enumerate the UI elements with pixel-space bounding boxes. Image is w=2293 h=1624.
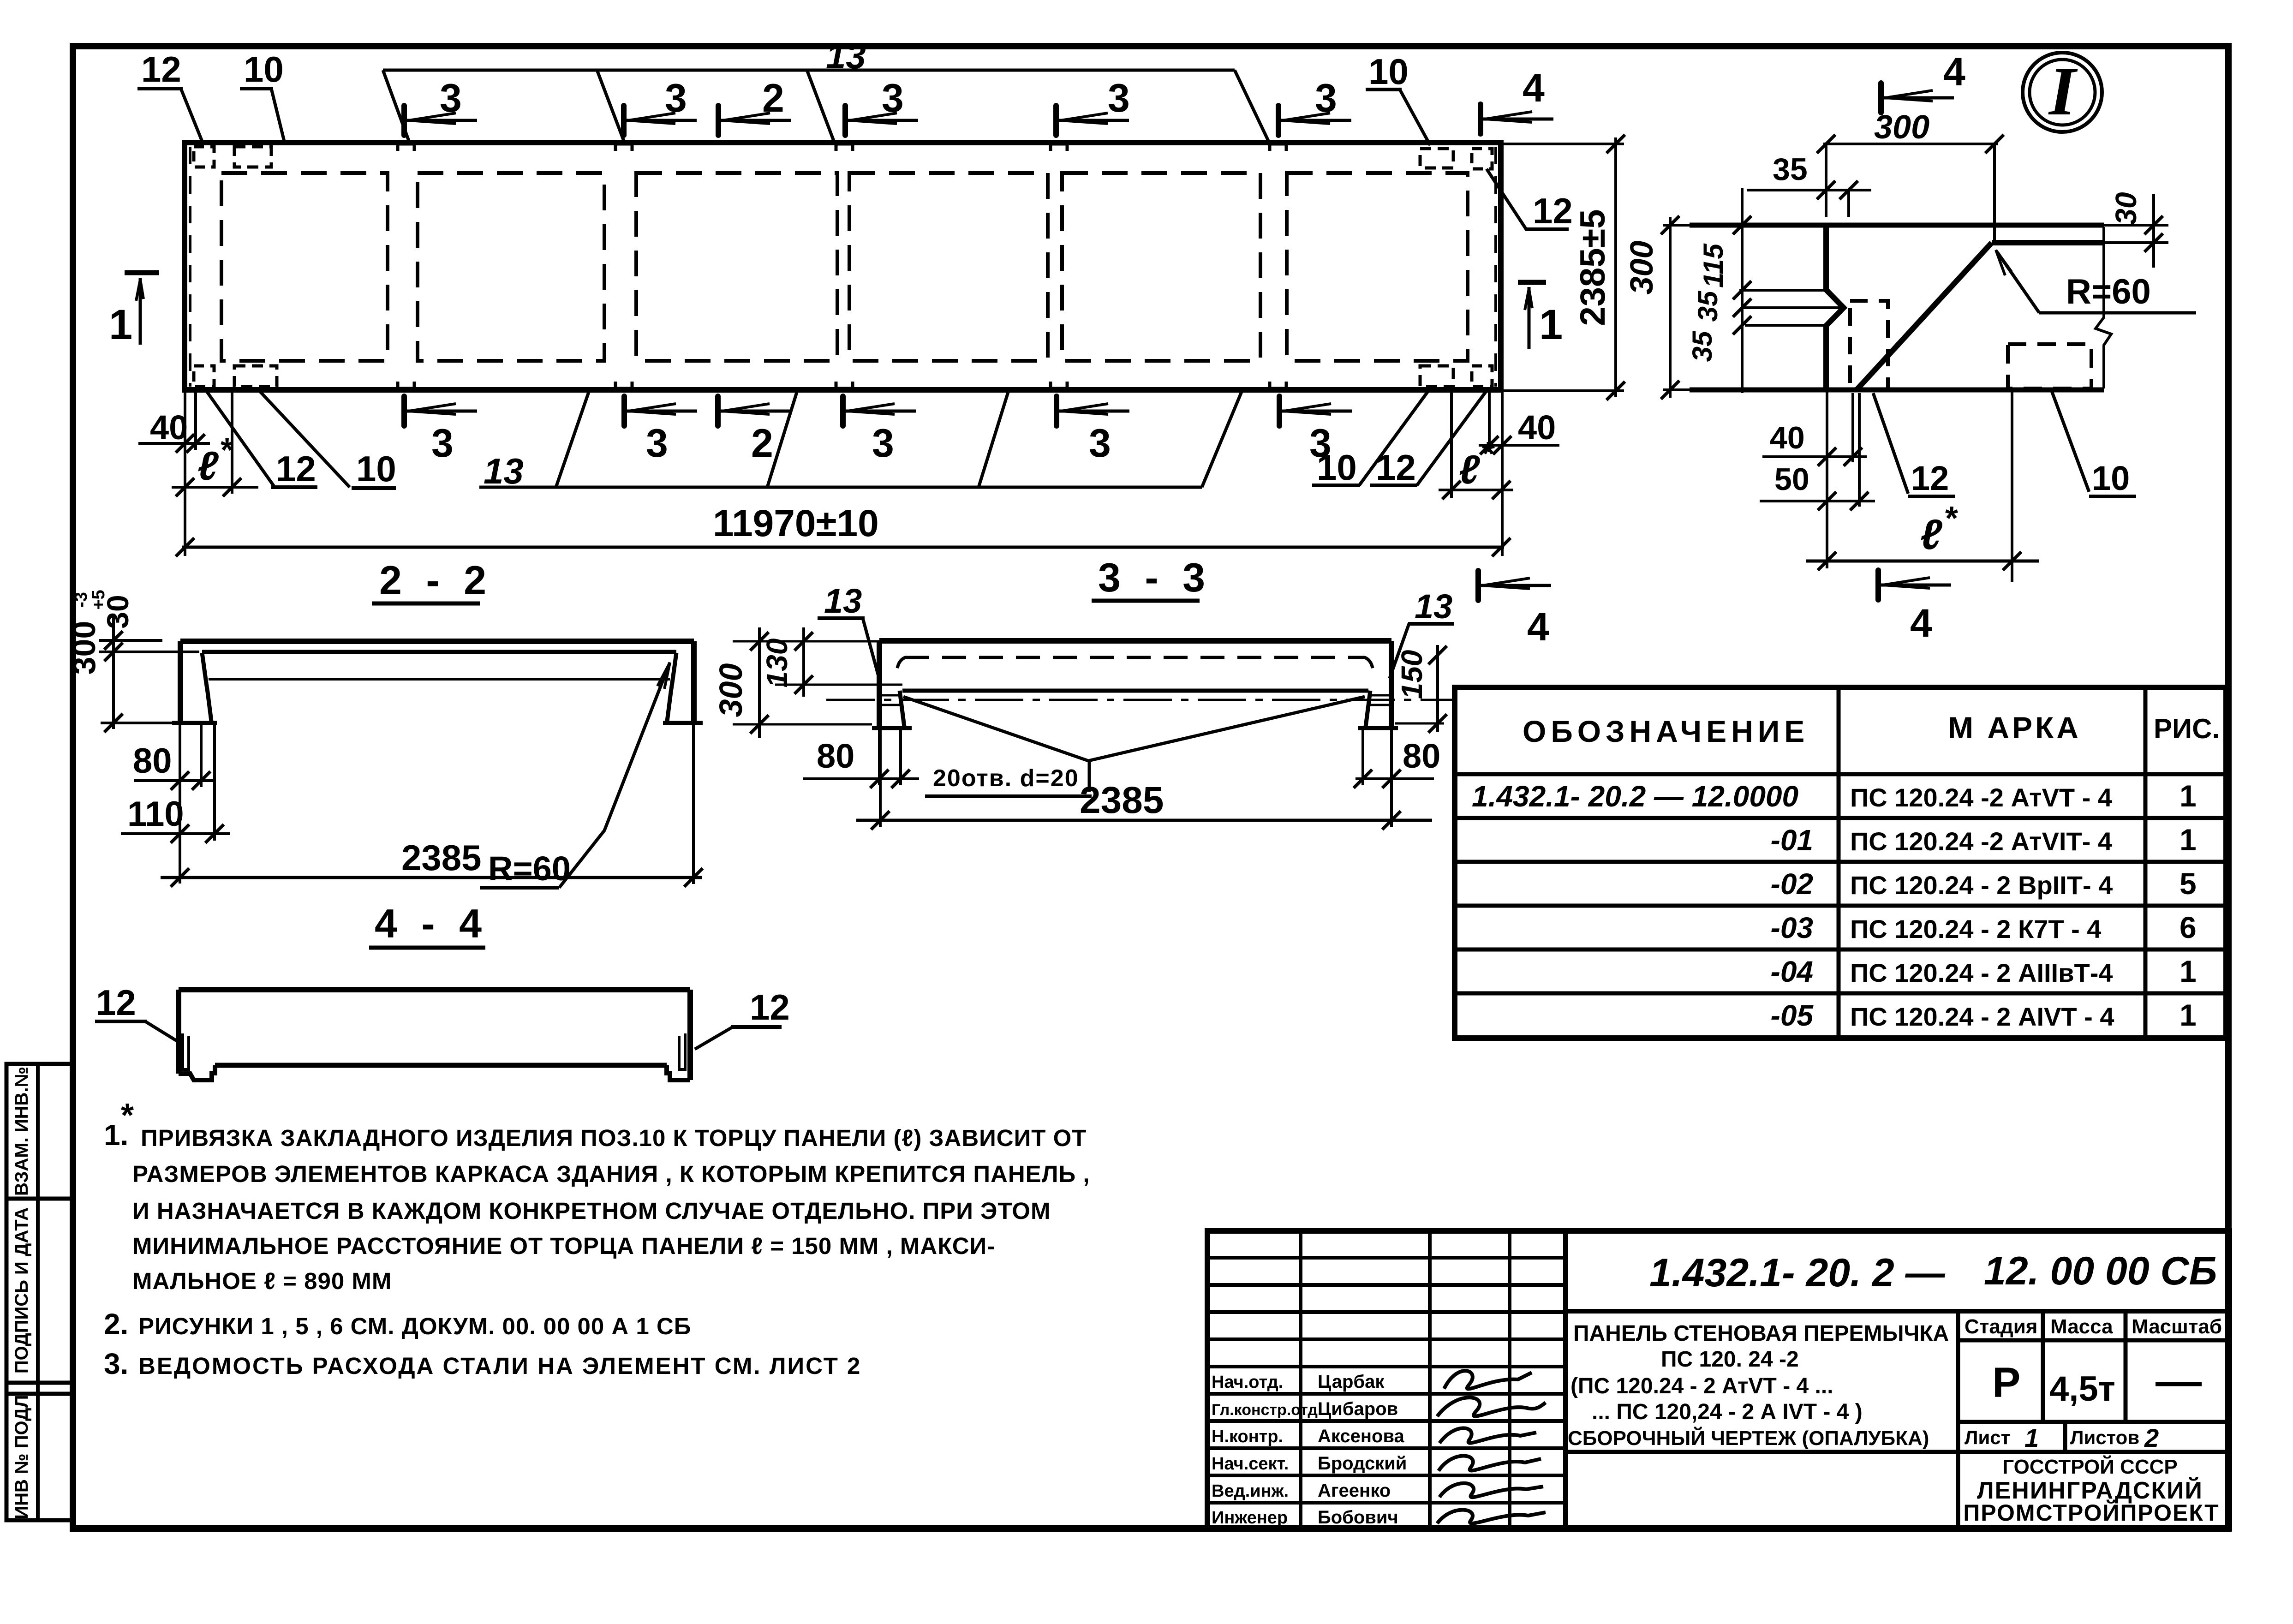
svg-text:4: 4 xyxy=(1910,601,1932,645)
svg-text:12: 12 xyxy=(1911,459,1949,497)
svg-text:3: 3 xyxy=(431,421,454,466)
svg-text:5: 5 xyxy=(2180,866,2197,901)
section flag 3 bottom at x=2290 xyxy=(1054,396,1059,426)
svg-text:4,5т: 4,5т xyxy=(2049,1369,2115,1409)
svg-text:13: 13 xyxy=(824,582,862,620)
section 2-2 dim 2385 xyxy=(692,725,695,884)
svg-text:Инженер: Инженер xyxy=(1212,1508,1288,1528)
svg-text:... ПС 120,24 - 2 А IVТ - 4 ): ... ПС 120,24 - 2 А IVТ - 4 ) xyxy=(1592,1400,1863,1424)
svg-text:35: 35 xyxy=(1773,152,1808,187)
svg-text:1: 1 xyxy=(2180,779,2197,813)
svg-text:40: 40 xyxy=(1770,420,1805,455)
svg-text:12: 12 xyxy=(141,49,181,90)
section 4-4 clip 12 right xyxy=(679,1033,685,1069)
svg-text:ОБОЗНАЧЕНИЕ: ОБОЗНАЧЕНИЕ xyxy=(1523,714,1809,748)
svg-text:*: * xyxy=(1482,436,1495,472)
detail I dim 300 left xyxy=(1663,224,1690,227)
section 3-3 dim 300 left xyxy=(733,640,879,643)
left stamp boxes xyxy=(6,1064,73,1199)
section flag 3 top at x=876 xyxy=(401,106,407,135)
svg-text:Масса: Масса xyxy=(2050,1315,2113,1338)
svg-text:-3: -3 xyxy=(72,592,91,608)
svg-text:13: 13 xyxy=(826,36,866,76)
svg-text:1: 1 xyxy=(2024,1423,2039,1452)
svg-text:ПРОМСТРОЙПРОЕКТ: ПРОМСТРОЙПРОЕКТ xyxy=(1963,1499,2219,1526)
svg-text:300: 300 xyxy=(1874,109,1929,146)
section 3-3 profile xyxy=(879,638,1391,644)
svg-text:50: 50 xyxy=(1774,462,1809,497)
svg-text:-05: -05 xyxy=(1771,999,1814,1032)
rib plate mark bottom edge xyxy=(836,382,853,388)
plate mark 12 bottom-right (dashed) xyxy=(1472,366,1492,387)
signatures (squiggles) xyxy=(1444,1371,1532,1389)
svg-text:МИНИМАЛЬНОЕ РАССТОЯНИЕ ОТ Т: МИНИМАЛЬНОЕ РАССТОЯНИЕ ОТ ТОРЦА ПАНЕЛИ ℓ… xyxy=(132,1233,995,1259)
plan view: dashed opening 3 xyxy=(636,173,837,361)
svg-text:300: 300 xyxy=(1624,241,1660,295)
section flag 4 top right of plan xyxy=(1478,104,1483,134)
svg-text:ИНВ № ПОДЛ: ИНВ № ПОДЛ xyxy=(12,1395,32,1519)
rib plate mark top edge xyxy=(1051,144,1067,151)
plate mark 12 bottom-left (dashed) xyxy=(194,366,214,387)
svg-text:МАЛЬНОЕ ℓ = 890 ММ: МАЛЬНОЕ ℓ = 890 ММ xyxy=(132,1268,392,1294)
svg-text:I: I xyxy=(2048,53,2078,130)
svg-text:Нач.отд.: Нач.отд. xyxy=(1212,1373,1283,1392)
leader 10 bottom-left xyxy=(259,391,350,487)
svg-text:3: 3 xyxy=(872,421,894,466)
section 3-3 dim 130 left xyxy=(775,684,902,686)
rib plate mark bottom edge xyxy=(1270,382,1286,388)
rib plate mark bottom edge xyxy=(615,382,632,388)
svg-text:3: 3 xyxy=(882,76,904,120)
plan view: panel outline xyxy=(185,143,1501,390)
svg-text:РИС.: РИС. xyxy=(2154,713,2220,744)
title block outline xyxy=(1207,1231,2229,1528)
svg-text:ℓ: ℓ xyxy=(197,443,219,489)
svg-text:3: 3 xyxy=(646,421,668,466)
svg-text:Аксенова: Аксенова xyxy=(1318,1426,1405,1446)
section 2-2 profile xyxy=(180,639,694,644)
svg-text:(ПС 120.24 - 2 АтVТ - 4 ...: (ПС 120.24 - 2 АтVТ - 4 ... xyxy=(1570,1374,1833,1398)
leader 12 bottom-left xyxy=(206,391,274,486)
svg-text:30: 30 xyxy=(2109,192,2143,225)
plate mark 10 top-right (dashed) xyxy=(1420,149,1453,168)
detail I flag 4 top xyxy=(1878,83,1884,113)
section mark 1 left xyxy=(125,270,159,275)
stadia massa masshtab cells xyxy=(1956,1311,1960,1528)
svg-text:3: 3 xyxy=(440,76,462,120)
svg-text:ПС 120.24 - 2 АIIIвТ-4: ПС 120.24 - 2 АIIIвТ-4 xyxy=(1850,958,2113,987)
detail I dims 115/35/35 left xyxy=(1741,188,1744,393)
svg-text:3 - 3: 3 - 3 xyxy=(1098,555,1212,600)
svg-text:Бродский: Бродский xyxy=(1318,1453,1407,1474)
svg-text:*: * xyxy=(121,1097,134,1134)
section flag 3 bottom at x=876 xyxy=(401,396,407,426)
section flag 3 top at x=2289 xyxy=(1053,106,1059,135)
svg-text:Р: Р xyxy=(1992,1359,2020,1406)
svg-text:ПС 120.24 - 2 АIVТ - 4: ПС 120.24 - 2 АIVТ - 4 xyxy=(1850,1002,2114,1031)
svg-text:3: 3 xyxy=(1315,76,1337,120)
svg-text:12: 12 xyxy=(750,987,790,1027)
plan view: dashed opening 2 xyxy=(418,173,604,361)
svg-text:150: 150 xyxy=(1395,650,1428,699)
svg-text:10: 10 xyxy=(1368,51,1409,92)
detail I profile xyxy=(1690,223,2104,228)
plan view: dashed opening 1 xyxy=(221,173,388,361)
section mark 1 right xyxy=(1518,280,1546,285)
svg-text:ВЕДОМОСТЬ РАСХОДА СТАЛИ: ВЕДОМОСТЬ РАСХОДА СТАЛИ НА ЭЛЕМЕНТ СМ. Л… xyxy=(138,1353,861,1379)
svg-text:И НАЗНАЧАЕТСЯ В КАЖДОМ КОНКР: И НАЗНАЧАЕТСЯ В КАЖДОМ КОНКРЕТНОМ СЛУЧАЕ… xyxy=(132,1198,1051,1224)
svg-text:ПС 120.24 - 2 К7Т - 4: ПС 120.24 - 2 К7Т - 4 xyxy=(1850,914,2101,943)
svg-text:12. 00 00 СБ: 12. 00 00 СБ xyxy=(1984,1249,2217,1293)
svg-text:2: 2 xyxy=(2144,1423,2159,1452)
svg-text:*: * xyxy=(1945,500,1958,537)
plate mark 12 top-right (dashed) xyxy=(1472,149,1492,169)
detail I dim 300 top xyxy=(1823,143,1998,145)
svg-text:ПРИВЯЗКА ЗАКЛАДНОГО ИЗДЕЛИЯ: ПРИВЯЗКА ЗАКЛАДНОГО ИЗДЕЛИЯ ПОЗ.10 К ТОР… xyxy=(141,1125,1087,1151)
svg-text:2.: 2. xyxy=(104,1308,128,1341)
detail I leader 12 xyxy=(1873,393,1908,494)
title block signature grid xyxy=(1299,1231,1302,1528)
svg-text:РИСУНКИ 1 , 5 , 6 СМ. ДОК: РИСУНКИ 1 , 5 , 6 СМ. ДОКУМ. 00. 00 00 А… xyxy=(138,1313,691,1339)
leader 13 top xyxy=(383,69,1235,72)
svg-text:Масштаб: Масштаб xyxy=(2132,1315,2222,1338)
section flag 4 bottom right of plan xyxy=(1475,571,1481,600)
svg-text:+5: +5 xyxy=(89,590,108,609)
svg-text:-04: -04 xyxy=(1771,955,1814,988)
parts table xyxy=(1455,687,2226,1038)
svg-text:Гл.констр.отд.: Гл.констр.отд. xyxy=(1212,1401,1322,1419)
section flag 3 top at x=1352 xyxy=(621,106,627,135)
svg-text:Вед.инж.: Вед.инж. xyxy=(1212,1481,1289,1501)
leader 13 bottom xyxy=(479,486,1202,489)
svg-text:ℓ: ℓ xyxy=(1920,511,1942,558)
svg-text:СБОРОЧНЫЙ ЧЕРТЕЖ (ОПАЛУБКА): СБОРОЧНЫЙ ЧЕРТЕЖ (ОПАЛУБКА) xyxy=(1568,1426,1929,1450)
svg-text:80: 80 xyxy=(817,737,854,775)
svg-text:ВЗАМ. ИНВ.№: ВЗАМ. ИНВ.№ xyxy=(12,1067,32,1196)
svg-text:3.: 3. xyxy=(104,1347,128,1380)
svg-text:РАЗМЕРОВ ЭЛЕМЕНТОВ КАРКАСА: РАЗМЕРОВ ЭЛЕМЕНТОВ КАРКАСА ЗДАНИЯ , К КО… xyxy=(132,1161,1090,1187)
svg-text:2385±5: 2385±5 xyxy=(1573,209,1612,326)
svg-text:Цибаров: Цибаров xyxy=(1318,1399,1398,1419)
svg-text:10: 10 xyxy=(1317,447,1357,488)
svg-text:М АРКА: М АРКА xyxy=(1948,710,2081,745)
rib plate mark top edge xyxy=(615,144,632,151)
svg-text:1.432.1- 20.2 — 12.0000: 1.432.1- 20.2 — 12.0000 xyxy=(1472,780,1798,813)
svg-text:ПАНЕЛЬ СТЕНОВАЯ ПЕРЕМЫЧКА: ПАНЕЛЬ СТЕНОВАЯ ПЕРЕМЫЧКА xyxy=(1573,1321,1949,1346)
svg-text:300: 300 xyxy=(713,663,749,717)
svg-text:1: 1 xyxy=(1539,301,1563,348)
section 3-3 center line xyxy=(826,699,1452,701)
section flag 3 bottom at x=2773 xyxy=(1277,396,1282,426)
svg-text:Царбак: Царбак xyxy=(1318,1372,1385,1392)
svg-text:2: 2 xyxy=(751,421,773,466)
svg-text:Н.контр.: Н.контр. xyxy=(1212,1427,1283,1446)
svg-text:40: 40 xyxy=(1518,408,1556,447)
section flag 3 top at x=2771 xyxy=(1276,106,1281,135)
svg-text:1: 1 xyxy=(2180,954,2197,988)
svg-text:-03: -03 xyxy=(1771,911,1814,944)
svg-text:35: 35 xyxy=(1692,290,1723,322)
svg-text:ПС 120.24 -2 АтVТ - 4: ПС 120.24 -2 АтVТ - 4 xyxy=(1850,783,2112,812)
plan view: dashed opening 4 xyxy=(849,173,1048,361)
detail I flag 4 bottom xyxy=(1875,570,1881,600)
detail I dim 30 right xyxy=(2104,224,2168,227)
plan view: dashed opening 6 xyxy=(1287,173,1468,361)
svg-text:ПС 120.24 - 2 ВрIIТ- 4: ПС 120.24 - 2 ВрIIТ- 4 xyxy=(1850,871,2113,900)
section flag 2 bottom at x=1556 xyxy=(715,396,721,426)
section 3-3 hole slots xyxy=(879,694,900,697)
svg-text:40: 40 xyxy=(150,408,188,447)
svg-text:4: 4 xyxy=(1943,50,1965,94)
section 3-3 dim 2385 xyxy=(879,730,882,827)
section 3-3 dim 150 right xyxy=(1436,645,1439,732)
svg-text:10: 10 xyxy=(356,448,396,489)
svg-text:80: 80 xyxy=(1403,737,1440,775)
section flag 3 bottom at x=1827 xyxy=(840,396,846,426)
svg-text:10: 10 xyxy=(2092,459,2130,497)
svg-text:10: 10 xyxy=(244,49,284,90)
svg-text:2: 2 xyxy=(762,76,784,120)
svg-text:2 - 2: 2 - 2 xyxy=(379,557,493,603)
svg-text:13: 13 xyxy=(1415,587,1452,626)
svg-text:Агеенко: Агеенко xyxy=(1318,1481,1391,1501)
section flag 2 top at x=1557 xyxy=(716,106,721,135)
svg-text:Стадия: Стадия xyxy=(1965,1315,2037,1338)
section 2-2 left dims 30 / 300 xyxy=(99,639,162,642)
svg-text:110: 110 xyxy=(127,794,184,834)
svg-text:ПОДПИСЬ И ДАТА: ПОДПИСЬ И ДАТА xyxy=(12,1207,32,1373)
svg-text:11970±10: 11970±10 xyxy=(713,502,879,544)
svg-text:4: 4 xyxy=(1523,66,1545,110)
svg-text:20отв. d=20: 20отв. d=20 xyxy=(933,765,1079,792)
svg-text:2385: 2385 xyxy=(401,837,482,878)
leader 12 bottom-right xyxy=(1370,484,1417,487)
svg-text:ГОССТРОЙ СССР: ГОССТРОЙ СССР xyxy=(2002,1455,2177,1478)
rib plate mark top edge xyxy=(1270,144,1286,151)
svg-text:Бобович: Бобович xyxy=(1318,1507,1398,1528)
svg-text:ПС 120.24 -2 АтVIТ- 4: ПС 120.24 -2 АтVIТ- 4 xyxy=(1850,827,2112,856)
svg-text:35: 35 xyxy=(1687,330,1718,362)
svg-text:80: 80 xyxy=(133,741,172,781)
svg-text:3: 3 xyxy=(665,76,687,120)
svg-text:ℓ: ℓ xyxy=(1459,447,1480,492)
rib plate mark bottom edge xyxy=(398,382,414,388)
svg-text:115: 115 xyxy=(1698,243,1729,288)
dim 11970±10 xyxy=(182,546,1504,549)
svg-text:4 - 4: 4 - 4 xyxy=(375,901,488,946)
section flag 3 bottom at x=1353 xyxy=(621,396,627,426)
detail I circle xyxy=(2023,53,2102,132)
svg-text:12: 12 xyxy=(96,982,136,1023)
plate mark 10 bottom-left (dashed) xyxy=(234,366,277,387)
dim 2385±5 right of plan xyxy=(1503,143,1624,145)
detail I plate 10 (dashed) xyxy=(2008,344,2091,388)
svg-text:R=60: R=60 xyxy=(2066,272,2151,311)
plate mark 10 top-left (dashed) xyxy=(234,147,271,167)
svg-text:-02: -02 xyxy=(1771,867,1814,901)
svg-text:3: 3 xyxy=(1089,421,1111,466)
svg-text:6: 6 xyxy=(2180,910,2197,944)
svg-text:300: 300 xyxy=(66,621,102,675)
svg-text:130: 130 xyxy=(760,639,794,688)
detail I leader 10 xyxy=(2051,390,2089,492)
section 3-3 holes leader V xyxy=(903,697,1088,761)
rib plate mark top edge xyxy=(398,144,414,151)
detail I plate 12 (dashed) xyxy=(1850,301,1888,390)
leader 10 bottom-right xyxy=(1312,484,1360,487)
rib plate mark top edge xyxy=(836,144,853,151)
svg-text:1.432.1- 20. 2 —: 1.432.1- 20. 2 — xyxy=(1649,1251,1946,1295)
plate mark 10 bottom-right (dashed) xyxy=(1420,366,1453,387)
svg-text:1: 1 xyxy=(109,301,132,348)
svg-text:1: 1 xyxy=(2180,998,2197,1032)
plan view: hidden edge left xyxy=(189,147,191,387)
plan view: hidden edge right xyxy=(1494,147,1497,387)
detail I section ext line with break xyxy=(2096,227,2111,388)
svg-text:Лист: Лист xyxy=(1965,1427,2010,1448)
svg-text:12: 12 xyxy=(276,448,316,489)
rib plate mark bottom edge xyxy=(1051,382,1067,388)
plan view: dashed opening 5 xyxy=(1062,173,1260,361)
svg-text:Нач.сект.: Нач.сект. xyxy=(1212,1454,1289,1474)
svg-text:13: 13 xyxy=(484,451,524,491)
svg-text:Листов: Листов xyxy=(2070,1427,2139,1448)
svg-text:ПС 120. 24 -2: ПС 120. 24 -2 xyxy=(1661,1347,1799,1372)
svg-text:12: 12 xyxy=(1376,447,1416,488)
section 4-4 clip 12 left xyxy=(183,1033,189,1069)
section 4-4 profile xyxy=(179,987,690,992)
svg-text:2385: 2385 xyxy=(1080,779,1164,821)
svg-text:-01: -01 xyxy=(1771,824,1814,857)
plate mark 12 top-left (dashed) xyxy=(194,147,214,167)
svg-text:12: 12 xyxy=(1533,191,1573,231)
svg-text:3: 3 xyxy=(1108,76,1130,120)
svg-text:R=60: R=60 xyxy=(488,849,571,888)
svg-text:4: 4 xyxy=(1527,605,1549,649)
svg-text:1: 1 xyxy=(2180,823,2197,857)
section flag 3 top at x=1832 xyxy=(842,106,848,135)
